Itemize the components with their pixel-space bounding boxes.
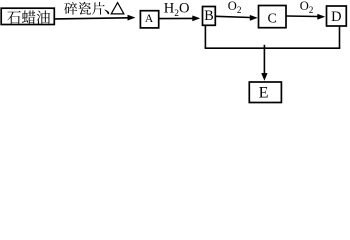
wire B down xyxy=(204,25,206,48)
box A xyxy=(140,11,158,28)
svg-text:D: D xyxy=(331,9,341,25)
svg-text:B: B xyxy=(204,8,213,24)
wire D down xyxy=(339,26,341,48)
label triangle (heat symbol) xyxy=(111,3,124,14)
svg-text:A: A xyxy=(145,13,154,25)
wire bottom horizontal xyxy=(205,47,341,49)
box 石蜡油 (paraffin oil) xyxy=(1,8,54,24)
box B xyxy=(203,7,216,26)
label 、 (comma) xyxy=(104,10,109,15)
arrow C to D xyxy=(286,15,318,18)
arrow 石蜡油 to A (wire + head) xyxy=(55,18,129,19)
arrow down to E xyxy=(263,45,265,74)
box D xyxy=(327,6,347,26)
svg-text:E: E xyxy=(259,84,269,102)
arrow B to C xyxy=(215,16,250,17)
svg-text:C: C xyxy=(268,11,277,26)
label 碎瓷片 xyxy=(64,2,104,15)
arrow A to B xyxy=(159,17,194,19)
box E xyxy=(249,82,281,103)
label 石蜡油 xyxy=(7,10,50,23)
box C xyxy=(259,6,287,28)
